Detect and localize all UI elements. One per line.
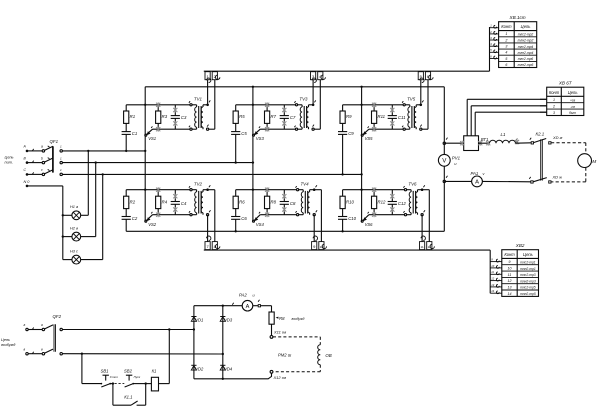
rectifier cell ТV1 bottom rail xyxy=(153,128,191,130)
svg-text:С2: С2 xyxy=(132,216,138,221)
resistor R11 xyxy=(372,111,377,123)
capacitor С12 xyxy=(388,201,397,203)
svg-text:тлс2-тр5: тлс2-тр5 xyxy=(520,286,536,290)
svg-text:ХD ж: ХD ж xyxy=(552,175,563,180)
svg-text:VS5: VS5 xyxy=(365,136,374,141)
wire lamp H1 to phase A xyxy=(81,214,89,216)
capacitor С9 xyxy=(338,131,347,133)
terminal X12 xyxy=(270,370,273,373)
rectifier cell ТV6 top rail xyxy=(343,189,405,191)
svg-text:С10: С10 xyxy=(348,216,356,221)
wire ТV6 secondary to terminals xyxy=(421,215,423,242)
svg-text:С8: С8 xyxy=(290,201,296,206)
thyristor VS6 xyxy=(361,220,363,222)
svg-text:2: 2 xyxy=(515,137,518,141)
resistor R1 xyxy=(124,111,129,123)
svg-text:R10: R10 xyxy=(346,199,354,204)
terminal 8 xyxy=(212,242,217,250)
svg-text:VS1: VS1 xyxy=(148,136,156,141)
bridge output to PA2 xyxy=(223,305,242,307)
resistor R3 xyxy=(156,111,161,123)
svg-text:тлс2-тр2: тлс2-тр2 xyxy=(518,33,534,37)
node to BT1 xyxy=(443,142,445,144)
svg-text:С7: С7 xyxy=(290,115,296,120)
control branch to SB1 xyxy=(81,354,83,384)
capacitor С2 xyxy=(122,216,131,218)
svg-text:ТV4: ТV4 xyxy=(301,182,310,187)
svg-text:R6: R6 xyxy=(239,199,245,204)
bridge right leg xyxy=(222,306,224,379)
wires BT1 to XB 6T table xyxy=(466,99,468,136)
svg-text:b: b xyxy=(41,156,43,160)
resistor R7 xyxy=(265,111,270,123)
svg-text:тлн2-тр5: тлн2-тр5 xyxy=(520,292,536,296)
lamp H2 xyxy=(72,232,81,241)
resistor R2 xyxy=(124,196,129,208)
lamp H1 xyxy=(72,211,81,220)
terminal 10 xyxy=(319,242,324,250)
svg-text:Н2 в: Н2 в xyxy=(70,226,78,231)
diode VD3 xyxy=(220,317,225,322)
svg-text:R2: R2 xyxy=(130,199,136,204)
terminal 2 xyxy=(212,72,217,80)
svg-text:R4: R4 xyxy=(162,199,168,204)
svg-text:С6: С6 xyxy=(241,216,247,221)
terminal 5 xyxy=(418,72,423,80)
svg-text:ОВ: ОВ xyxy=(325,353,331,358)
svg-text:5: 5 xyxy=(505,57,507,61)
svg-text:SВ2: SВ2 xyxy=(124,368,133,373)
feed wire VS3 column xyxy=(252,87,254,222)
svg-text:SВ1: SВ1 xyxy=(101,368,109,373)
rectifier cell ТV1 top rail xyxy=(126,104,190,106)
bus 3: capacitor return bus xyxy=(126,230,444,232)
svg-text:PV1: PV1 xyxy=(452,155,461,160)
svg-text:ХВ 6Т: ХВ 6Т xyxy=(558,81,573,86)
wire bus4 to XB2 table xyxy=(489,250,491,293)
svg-text:С11: С11 xyxy=(398,115,406,120)
phase wire C xyxy=(62,173,361,175)
svg-text:+св: +св xyxy=(570,98,576,102)
svg-text:VS3: VS3 xyxy=(256,136,265,141)
svg-text:R5: R5 xyxy=(239,114,245,119)
svg-text:6: 6 xyxy=(505,63,507,67)
svg-text:пит.: пит. xyxy=(5,161,13,165)
svg-text:ТV6: ТV6 xyxy=(408,182,417,187)
svg-text:2: 2 xyxy=(552,105,555,109)
svg-text:VS2: VS2 xyxy=(148,222,157,227)
bridge left leg xyxy=(193,306,195,379)
capacitor С7 xyxy=(280,115,289,117)
svg-text:3: 3 xyxy=(553,111,555,115)
svg-text:тлс2-тр4: тлс2-тр4 xyxy=(518,45,534,49)
QF2 linkage xyxy=(53,324,55,352)
wire ТV4 secondary to terminals xyxy=(313,215,315,242)
ammeter PA2 xyxy=(242,300,253,311)
svg-text:QF1: QF1 xyxy=(50,139,59,144)
svg-text:Цепь: Цепь xyxy=(568,90,578,95)
svg-text:PA1: PA1 xyxy=(471,171,479,176)
svg-text:ТV2: ТV2 xyxy=(194,182,203,187)
svg-text:Цепь: Цепь xyxy=(523,252,533,257)
feed wire VS5 column xyxy=(361,87,363,222)
svg-text:PA2: PA2 xyxy=(239,293,247,298)
svg-text:тлн2-тр3: тлн2-тр3 xyxy=(520,279,536,283)
capacitor С5 xyxy=(231,131,240,133)
thyristor VS3 xyxy=(253,134,255,136)
svg-text:ТV1: ТV1 xyxy=(194,97,203,102)
rectifier cell ТV4 top rail xyxy=(236,189,297,191)
svg-text:Цепь: Цепь xyxy=(1,338,10,342)
terminal 3 xyxy=(311,72,316,80)
QF1 linkage bar xyxy=(52,146,54,172)
capacitor С1 xyxy=(122,131,131,133)
svg-text:R12: R12 xyxy=(378,199,386,204)
svg-text:10: 10 xyxy=(508,267,512,271)
voltmeter PV1 xyxy=(438,154,450,166)
svg-text:a: a xyxy=(41,323,43,327)
svg-text:тлн2-тр4: тлн2-тр4 xyxy=(518,51,534,55)
svg-text:Конт: Конт xyxy=(549,90,560,95)
transformer ТV6 core xyxy=(412,191,414,214)
thyristor VS1 xyxy=(145,134,147,136)
svg-text:С9: С9 xyxy=(348,131,354,136)
svg-text:1: 1 xyxy=(553,98,555,102)
rectifier cell ТV4 mid rail xyxy=(260,214,297,216)
wire K1 to top wire xyxy=(168,330,170,384)
capacitor С3 xyxy=(171,115,180,117)
svg-text:a: a xyxy=(41,145,43,149)
wire ТV2 secondary to terminals xyxy=(207,215,209,242)
wire ТV1 secondary to terminals xyxy=(207,80,209,105)
node to PA1 xyxy=(443,180,445,182)
dashed leads to motor M xyxy=(551,142,586,144)
terminal 6 xyxy=(425,72,430,80)
rectifier cell ТV3 top rail xyxy=(236,104,296,106)
stubs XB 6T xyxy=(540,98,547,100)
svg-text:11: 11 xyxy=(508,273,512,277)
svg-text:A: A xyxy=(475,180,479,186)
terminal 1 xyxy=(205,72,210,80)
transformer ТV5 core xyxy=(411,106,413,128)
svg-text:11: 11 xyxy=(421,245,424,249)
rectifier cell ТV2 mid rail xyxy=(153,214,191,216)
svg-text:К1: К1 xyxy=(152,368,157,373)
dashed link to field winding OB xyxy=(273,336,320,338)
thyristor VS2 xyxy=(145,220,147,222)
wire bus1 to XB1 table xyxy=(489,27,491,71)
rectifier cell ТV2 top rail xyxy=(126,189,190,191)
phase wire A xyxy=(62,150,145,152)
inductor L1 xyxy=(479,142,490,144)
svg-text:К2.1: К2.1 xyxy=(536,131,545,136)
rheostat R8 (field) xyxy=(269,312,274,324)
wire QF2 top to bridge xyxy=(62,329,194,331)
svg-text:тлс2-тр1: тлс2-тр1 xyxy=(520,260,536,264)
phase wire B xyxy=(62,162,253,164)
feed wire VS1 column xyxy=(144,87,146,222)
svg-text:тлс2-тр3: тлс2-тр3 xyxy=(520,273,536,277)
svg-text:2: 2 xyxy=(504,38,507,42)
svg-text:R8: R8 xyxy=(271,199,277,204)
svg-text:С1: С1 xyxy=(132,131,138,136)
svg-text:возбужд: возбужд xyxy=(1,343,15,347)
terminal 11 xyxy=(420,242,425,250)
rectifier cell ТV5 top rail xyxy=(343,104,404,106)
svg-text:М: М xyxy=(592,159,596,165)
capacitor С4 xyxy=(171,201,180,203)
svg-text:R3: R3 xyxy=(162,114,168,119)
svg-text:Цепь: Цепь xyxy=(521,24,531,29)
resistor R4 xyxy=(156,196,161,208)
resistor R12 xyxy=(372,196,377,208)
svg-text:12: 12 xyxy=(508,279,512,283)
resistor R6 xyxy=(233,196,238,208)
rectifier cell ТV5 bottom rail xyxy=(369,128,404,130)
svg-text:ТV5: ТV5 xyxy=(407,97,416,102)
svg-text:быт: быт xyxy=(569,111,576,115)
QF2 pole в xyxy=(26,353,28,355)
svg-text:-св: -св xyxy=(570,105,575,109)
svg-text:VS4: VS4 xyxy=(256,222,265,227)
svg-text:L1: L1 xyxy=(501,132,506,137)
svg-text:VD1: VD1 xyxy=(195,318,203,323)
transformer ТV4 core xyxy=(304,191,306,214)
svg-text:R8: R8 xyxy=(279,316,285,321)
svg-text:A: A xyxy=(246,304,250,310)
svg-text:Н1 а: Н1 а xyxy=(70,204,79,209)
transformer ТV1 core xyxy=(198,106,200,128)
svg-text:тлс2-тр6: тлс2-тр6 xyxy=(518,57,534,61)
svg-text:VD4: VD4 xyxy=(224,366,233,371)
field winding OB xyxy=(318,345,321,365)
diode VD2 xyxy=(191,366,196,371)
relay contact K2.1 lower xyxy=(531,181,533,183)
ammeter PA1 xyxy=(446,180,472,182)
diode VD1 xyxy=(191,317,196,322)
thyristor VS4 xyxy=(253,220,255,222)
svg-text:тлн2-тр6: тлн2-тр6 xyxy=(518,63,534,67)
svg-text:N 0: N 0 xyxy=(24,180,31,184)
resistor R9 xyxy=(340,111,345,123)
terminal 9 xyxy=(312,242,317,250)
capacitor С6 xyxy=(231,216,240,218)
bus 2: gate feed bus to PV1 xyxy=(145,86,444,88)
svg-text:ХВ2: ХВ2 xyxy=(515,243,525,248)
svg-text:ХD ж: ХD ж xyxy=(552,135,563,140)
current transducer BT1 xyxy=(446,142,464,144)
svg-text:VD3: VD3 xyxy=(224,318,233,323)
svg-text:Конт: Конт xyxy=(504,252,515,257)
svg-text:13: 13 xyxy=(508,285,512,289)
svg-text:возбужд: возбужд xyxy=(292,317,305,321)
svg-text:К1.1: К1.1 xyxy=(124,395,132,400)
wire ТV3 secondary to terminals xyxy=(312,80,314,105)
wire lamp H3 to phase C xyxy=(81,259,103,261)
svg-text:R11: R11 xyxy=(378,114,386,119)
svg-text:VD2: VD2 xyxy=(195,366,204,371)
svg-text:С4: С4 xyxy=(181,201,187,206)
svg-text:c: c xyxy=(41,168,43,172)
svg-text:Цепь: Цепь xyxy=(5,156,14,160)
wire bus2 down to PV1 and bus3 xyxy=(443,87,445,155)
transformer ТV3 core xyxy=(303,106,305,128)
svg-text:9: 9 xyxy=(509,260,511,264)
terminal 12 xyxy=(427,242,432,250)
svg-text:R9: R9 xyxy=(346,114,352,119)
svg-text:VS6: VS6 xyxy=(365,222,374,227)
terminal 4 xyxy=(318,72,323,80)
QF1 pole A xyxy=(26,150,29,153)
svg-text:Стоп: Стоп xyxy=(110,375,118,379)
thyristor VS5 xyxy=(361,134,363,136)
svg-text:Пуск: Пуск xyxy=(134,375,141,379)
rectifier cell ТV3 bottom rail xyxy=(260,128,296,130)
bridge bottom rail xyxy=(194,378,223,380)
bridge top rail xyxy=(194,305,223,307)
svg-text:ХВ.1ст: ХВ.1ст xyxy=(509,15,526,20)
resistor R10 xyxy=(340,196,345,208)
svg-text:С5: С5 xyxy=(241,131,247,136)
capacitor С11 xyxy=(388,115,397,117)
svg-text:Х11 ов: Х11 ов xyxy=(273,330,286,335)
svg-text:3: 3 xyxy=(505,45,507,49)
wire QF2 bottom to bridge xyxy=(62,353,222,355)
diode VD4 xyxy=(220,366,225,371)
wire lamp H2 to phase B xyxy=(81,236,96,238)
svg-text:R1: R1 xyxy=(130,114,136,119)
rectifier cell ТV6 mid rail xyxy=(369,214,405,216)
QF2 pole a xyxy=(26,328,28,330)
svg-text:ТV3: ТV3 xyxy=(299,97,308,102)
resistor R5 xyxy=(233,111,238,123)
motor M xyxy=(578,154,592,168)
svg-text:Н3 с: Н3 с xyxy=(70,248,78,253)
svg-text:Конт: Конт xyxy=(501,24,512,29)
svg-text:тлн2-тр2: тлн2-тр2 xyxy=(518,39,534,43)
wire ТV5 secondary to terminals xyxy=(420,80,422,105)
svg-text:1: 1 xyxy=(505,32,507,36)
resistor R8 xyxy=(265,196,270,208)
dashed link SB1-SB2 xyxy=(115,383,125,385)
capacitor С8 xyxy=(280,201,289,203)
bus 4: secondary terminals 7-12 to XB2 xyxy=(204,249,490,251)
K2.1 linkage xyxy=(540,139,542,180)
wire X12 to bridge bottom xyxy=(223,373,272,379)
terminal 7 xyxy=(205,242,210,250)
svg-text:РМ2 ш: РМ2 ш xyxy=(278,353,292,358)
svg-text:4: 4 xyxy=(505,51,507,55)
bus: secondary terminals 1-6 to XB1 xyxy=(204,70,490,72)
svg-text:QF2: QF2 xyxy=(53,314,62,319)
svg-text:С3: С3 xyxy=(181,115,187,120)
svg-text:R7: R7 xyxy=(271,114,277,119)
svg-text:14: 14 xyxy=(508,292,512,296)
lamp H3 xyxy=(72,255,81,264)
QF1 pole B xyxy=(26,161,29,164)
QF1 pole C xyxy=(26,173,29,176)
transformer ТV2 core xyxy=(198,191,200,214)
svg-text:Х12 ов: Х12 ов xyxy=(273,375,287,380)
capacitor С10 xyxy=(338,216,347,218)
svg-text:тлн2-тр1: тлн2-тр1 xyxy=(520,267,536,271)
svg-text:a: a xyxy=(24,323,26,327)
svg-text:С12: С12 xyxy=(398,201,406,206)
